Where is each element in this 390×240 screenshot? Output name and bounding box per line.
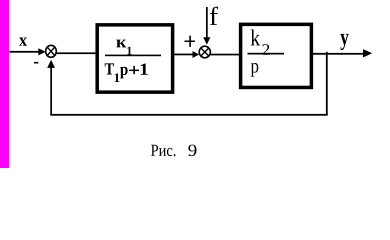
wire disturbance f (vertical): [206, 7, 208, 38]
arrowhead into summing junction S2: [193, 51, 200, 58]
summing junction S1: [46, 45, 57, 57]
numerator k1 of W1: [116, 40, 131, 55]
denominator T1p+1 of W1: [105, 63, 148, 82]
arrowhead feedback into S1: [47, 60, 55, 68]
wire S1 to block W1: [57, 52, 97, 54]
output label y: [340, 34, 348, 50]
input label x: [19, 38, 27, 46]
plus sign at S2 input: [185, 36, 195, 47]
block W2 (k2/p): [241, 24, 312, 87]
output arrowhead y: [363, 49, 372, 57]
arrowhead of f into S2: [203, 37, 210, 45]
wire W1 to summing junction S2: [174, 54, 193, 56]
numerator k2 of W2: [251, 29, 270, 54]
caption Рис. 9: [151, 145, 196, 157]
feedback vertical wire to S1: [50, 68, 52, 115]
block W1 (k1/(T1p+1)): [97, 25, 172, 92]
disturbance label f: [210, 7, 218, 25]
wire W2 to output: [313, 53, 364, 55]
feedback bottom wire: [50, 114, 327, 116]
wire S2 to block W2: [211, 54, 240, 56]
minus sign at S1 feedback input: [34, 62, 38, 64]
magenta page-edge strip: [0, 0, 11, 168]
fraction bar of W2: [248, 53, 285, 55]
wire input x: [10, 51, 40, 53]
feedback takeoff node: [326, 52, 328, 115]
arrowhead into summing junction S1: [38, 48, 46, 55]
denominator p of W2: [251, 63, 259, 77]
fraction bar of W1: [105, 55, 161, 57]
summing junction S2: [199, 46, 210, 58]
